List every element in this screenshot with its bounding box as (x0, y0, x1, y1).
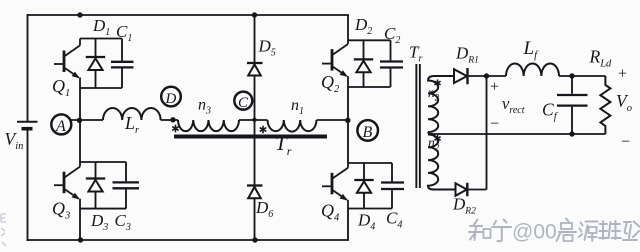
edge artifact marks (1, 214, 6, 246)
wire left rail upper segment (27, 15, 29, 121)
transformer secondary winding n2 upper (428, 76, 454, 132)
wire top rail (28, 14, 349, 16)
wire left leg middle (79, 88, 81, 162)
transistor Q4 (322, 163, 348, 209)
transistor Q3 (54, 162, 80, 209)
svg-text:@00: @00 (512, 221, 557, 244)
watermark zhihu (469, 219, 640, 242)
svg-text:C2: C2 (384, 24, 400, 46)
svg-text:C3: C3 (115, 211, 131, 233)
wire n1 to node B (317, 119, 349, 121)
battery V_in (17, 122, 38, 129)
svg-text:−: − (490, 116, 499, 133)
wire n3 to n1 (239, 119, 268, 121)
wire clamp leg lower (254, 198, 256, 240)
svg-text:Vin: Vin (5, 129, 24, 152)
wire Lf to RLd (559, 75, 605, 77)
wire node A to Lr (71, 119, 103, 121)
polarity asterisk n2 upper (434, 80, 440, 87)
node C (234, 92, 252, 111)
wire bottom rail (28, 239, 349, 241)
svg-text:+: + (490, 79, 499, 96)
svg-text:+: + (618, 66, 627, 83)
diode D5 (247, 63, 263, 76)
svg-text:D6: D6 (255, 198, 273, 220)
svg-text:Vo: Vo (616, 91, 632, 114)
transformer primary winding n1 (268, 120, 317, 132)
svg-text:vrect: vrect (502, 94, 525, 116)
svg-text:D5: D5 (258, 37, 276, 59)
wire right leg middle (347, 87, 349, 163)
transformer Tr secondary core bars (415, 64, 420, 188)
svg-text:n1: n1 (291, 97, 304, 117)
wire Q2 snubber loop (348, 40, 391, 87)
diode D6 (247, 186, 263, 199)
svg-text:Q1: Q1 (52, 76, 70, 99)
polarity dot asterisk n3 (172, 125, 179, 133)
transformer Tr core bar (174, 135, 327, 139)
svg-text:Tr: Tr (409, 43, 422, 65)
resistor RLd (600, 76, 610, 134)
svg-text:B: B (363, 124, 373, 141)
wire rectifier cathode bus (486, 76, 488, 190)
svg-text:D4: D4 (357, 211, 375, 233)
svg-text:D3: D3 (90, 211, 108, 233)
capacitor C1 (111, 39, 134, 89)
capacitor Cf (557, 76, 588, 134)
transformer secondary winding n2 lower (428, 135, 456, 190)
diode DR1 (454, 68, 506, 84)
wire Q4 snubber loop (348, 163, 392, 209)
svg-text:RLd: RLd (589, 47, 613, 70)
wire right leg bottom (347, 209, 349, 241)
transistor Q2 (322, 15, 348, 87)
svg-text:D: D (165, 91, 177, 107)
polarity dot asterisk n1 (260, 126, 267, 134)
svg-text:−: − (621, 134, 630, 151)
wire clamp leg middle (254, 76, 256, 187)
wire left leg bottom (79, 209, 81, 240)
node A (51, 114, 71, 135)
wire clamp leg upper (254, 15, 256, 64)
svg-text:DR2: DR2 (452, 195, 476, 217)
wire center tap return rail (428, 132, 605, 134)
node D (161, 87, 181, 107)
svg-text:C4: C4 (386, 209, 402, 231)
capacitor C3 (113, 162, 140, 209)
node B (357, 120, 378, 141)
svg-text:DR1: DR1 (455, 44, 479, 66)
svg-text:Cf: Cf (542, 100, 559, 123)
diode D2 (354, 40, 373, 87)
wire Lr to node D (161, 119, 178, 121)
svg-text:D1: D1 (92, 16, 110, 38)
svg-text:n3: n3 (198, 97, 211, 117)
capacitor C4 (381, 163, 404, 209)
svg-text:C1: C1 (116, 22, 132, 44)
capacitor C2 (380, 40, 403, 87)
wire Q3 snubber loop (80, 162, 126, 209)
transformer primary winding n3 (178, 120, 239, 131)
diode D4 (354, 163, 373, 209)
diode D3 (86, 162, 105, 209)
svg-text:Lr: Lr (124, 113, 140, 136)
junction dots rectifier (484, 73, 575, 136)
diode D1 (86, 39, 105, 89)
wire left rail lower segment (27, 129, 29, 240)
svg-text:Q4: Q4 (321, 201, 340, 224)
svg-text:A: A (55, 118, 66, 135)
svg-text:Q2: Q2 (321, 72, 340, 95)
diode DR2 (456, 183, 487, 197)
inductor Lr (103, 108, 161, 120)
inductor Lf (506, 63, 559, 76)
svg-text:C: C (238, 95, 249, 111)
transistor Q1 (54, 39, 80, 89)
polarity asterisk n2 lower (434, 135, 440, 142)
wire Q1 snubber loop (80, 39, 122, 89)
svg-text:Q3: Q3 (52, 199, 70, 222)
svg-text:D2: D2 (354, 15, 372, 37)
svg-text:Lf: Lf (523, 38, 540, 61)
